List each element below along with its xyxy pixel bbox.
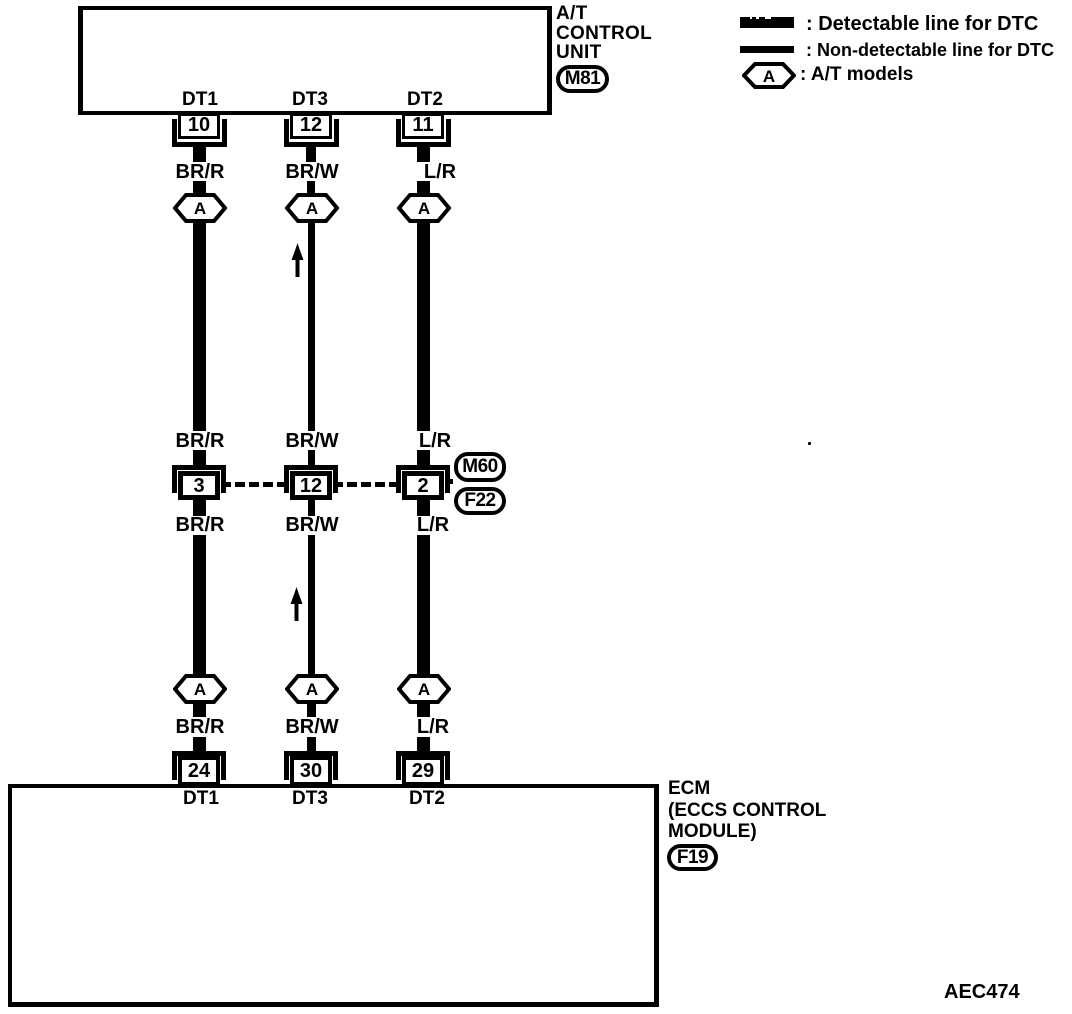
A/T control unit box: [78, 6, 552, 115]
dash nub right of connector 2: [445, 479, 453, 484]
label DT3 (bottom): [292, 791, 328, 806]
wire col3 long (detectable, thick): [417, 222, 430, 431]
wire label L/R: [417, 517, 449, 533]
legend: A/T models text: [800, 65, 913, 84]
A/T models hexagon col3 top: [397, 193, 451, 223]
connector 3 box: [178, 471, 220, 500]
wire col2 long (non-detectable, thin): [308, 222, 315, 431]
label DT1 (top): [182, 92, 218, 107]
wire col2 stub above hexagon: [307, 181, 315, 195]
pin 10 bracket: [172, 119, 227, 147]
connector oval M60: [454, 452, 506, 482]
connector 12 box: [290, 471, 332, 500]
A/T models hexagon col1 top: [173, 193, 227, 223]
legend: non-detectable line bar: [740, 46, 794, 53]
wire col3 stub above pin 29: [417, 737, 430, 752]
connector 2 box: [402, 471, 444, 500]
connector 2 bracket: [396, 465, 450, 493]
wire col3 long lower: [417, 535, 430, 675]
A/T models hexagon col1 bottom: [173, 674, 227, 704]
svg-text:A: A: [418, 199, 430, 218]
svg-text:A: A: [306, 680, 318, 699]
A/T control unit name text: [556, 4, 652, 63]
wire col1 stub below pin 10: [193, 147, 206, 162]
wire label BR/W: [285, 433, 338, 449]
wire col2 long lower: [308, 535, 315, 675]
wire col1 stub above hexagon: [193, 181, 206, 195]
wire label BR/W: [285, 719, 338, 735]
wire label BR/R: [176, 517, 225, 533]
wire col1 stub below connector 3: [193, 500, 206, 516]
wire label BR/R: [176, 719, 225, 735]
pin 24 connector box: [178, 756, 220, 786]
connector oval F19: [667, 844, 718, 871]
label DT3 (top): [292, 92, 328, 107]
ECM box: [8, 784, 659, 1007]
svg-text:A: A: [194, 680, 206, 699]
legend: A/T models hexagon: [742, 62, 796, 89]
legend: detectable line bar: [740, 17, 794, 28]
dashed link between connector 12 and connector 2: [333, 482, 397, 487]
svg-text:A: A: [306, 199, 318, 218]
connector oval M81: [556, 65, 609, 93]
wire col2 stub below hexagon2: [307, 703, 316, 717]
label DT2 (top): [407, 92, 443, 107]
wire label BR/R: [176, 164, 225, 180]
wire col3 stub below pin 11: [417, 147, 430, 162]
wire col2 stub above connector 12: [308, 450, 315, 466]
connector 3 bracket: [172, 465, 226, 493]
pin 29 bracket: [396, 751, 450, 780]
wire col3 stub below hexagon2: [417, 703, 430, 717]
wire label BR/W: [285, 164, 338, 180]
wire col2 stub above pin 30: [307, 737, 316, 752]
wire col2 stub below connector 12: [308, 500, 315, 516]
pin 11 bracket: [396, 119, 451, 147]
A/T models hexagon col2 top: [285, 193, 339, 223]
pin 11 connector box: [402, 113, 444, 139]
wire col1 stub above connector 3: [193, 450, 206, 466]
connector oval F22: [454, 487, 506, 515]
wire col2 stub below pin 12: [306, 147, 316, 162]
pin 24 bracket: [172, 751, 226, 780]
pin 30 connector box: [290, 756, 332, 786]
pin 12 bracket: [284, 119, 339, 147]
wire label BR/W: [285, 517, 338, 533]
scan speck: [808, 442, 811, 445]
up arrow col2 upper: [291, 243, 304, 277]
svg-text:A: A: [418, 680, 430, 699]
pin 12 connector box: [290, 113, 332, 139]
legend: detectable text: [806, 14, 1038, 34]
wire label L/R: [417, 719, 449, 735]
wire col3 stub above connector 2: [417, 450, 430, 466]
figure number AEC474: [944, 982, 1020, 1002]
pin 30 bracket: [284, 751, 338, 780]
wire label BR/R: [176, 433, 225, 449]
wire col3 stub above hexagon: [417, 181, 430, 195]
wire col1 long lower: [193, 535, 206, 675]
svg-text:A: A: [763, 67, 775, 86]
up arrow col2 lower: [290, 587, 303, 621]
label DT1 (bottom): [183, 791, 219, 806]
wire col3 stub below connector 2: [417, 500, 430, 516]
wire col1 long (detectable, thick): [193, 222, 206, 431]
dashed link between connector 3 and connector 12: [221, 482, 285, 487]
wire col1 stub above pin 24: [193, 737, 206, 752]
pin 10 connector box: [178, 113, 220, 139]
A/T models hexagon col2 bottom: [285, 674, 339, 704]
label DT2 (bottom): [409, 791, 445, 806]
connector 12 bracket: [284, 465, 338, 493]
ECM name text: [668, 778, 826, 843]
wire col1 stub below hexagon2: [193, 703, 206, 717]
legend: non-detectable text: [806, 41, 1054, 59]
A/T models hexagon col3 bottom: [397, 674, 451, 704]
svg-text:A: A: [194, 199, 206, 218]
wire label L/R: [419, 433, 451, 449]
pin 29 connector box: [402, 756, 444, 786]
wire label L/R: [424, 164, 456, 180]
